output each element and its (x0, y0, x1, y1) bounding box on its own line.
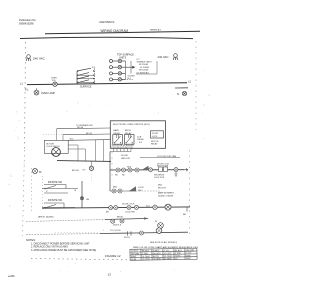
svg-text:SU-SW: SU-SW (128, 76, 135, 78)
svg-text:P PNK: P PNK (175, 253, 182, 255)
svg-text:DOOR LOCK: DOOR LOCK (122, 203, 135, 205)
svg-text:N: N (177, 92, 179, 96)
svg-text:SURF: SURF (131, 259, 137, 261)
svg-text:TO CLOCK: TO CLOCK (110, 230, 121, 232)
svg-text:1650: 1650 (186, 258, 191, 260)
svg-text:NOTES:: NOTES: (26, 238, 36, 242)
svg-text:BK BLK: BK BLK (142, 250, 150, 252)
svg-text:BK GN: BK GN (72, 170, 79, 172)
svg-text:Publication No: Publication No (19, 18, 36, 22)
svg-text:R RED: R RED (153, 250, 160, 252)
svg-text:ELECTRONIC OVEN CONTROL (EOC): ELECTRONIC OVEN CONTROL (EOC) (113, 124, 150, 126)
svg-text:MDL: MDL (113, 187, 118, 189)
svg-text:26 OHM: 26 OHM (142, 259, 150, 261)
svg-text:P1 P2 P3 P4 P5 P6 P7 P8: P1 P2 P3 P4 P5 P6 P7 P8 (112, 147, 133, 149)
svg-text:SEE NOTE 51 ALL MODELS: SEE NOTE 51 ALL MODELS (150, 241, 177, 244)
svg-text:2600W / 2100W: 2600W / 2100W (158, 195, 173, 197)
svg-text:BK-34: BK-34 (86, 133, 93, 135)
svg-text:35 OHM: 35 OHM (153, 258, 161, 260)
svg-text:N: N (75, 190, 77, 192)
svg-text:BK: BK (183, 214, 186, 216)
svg-text:240 VAC: 240 VAC (33, 57, 46, 61)
svg-text:57 OHM: 57 OHM (164, 258, 172, 260)
svg-text:PL: PL (39, 171, 43, 174)
svg-text:GY GRY: GY GRY (164, 253, 172, 255)
svg-text:LOCK: LOCK (152, 136, 158, 138)
svg-text:5995419298: 5995419298 (19, 21, 34, 25)
svg-text:BK: BK (106, 212, 109, 214)
svg-text:V VIO: V VIO (186, 253, 192, 255)
svg-text:PLUG: PLUG (124, 237, 130, 239)
svg-text:N-1: N-1 (128, 78, 132, 80)
svg-text:BL BLU: BL BLU (175, 250, 182, 252)
svg-text:GN: GN (86, 199, 90, 201)
svg-text:K-3: K-3 (139, 142, 143, 144)
svg-text:RD-40: RD-40 (77, 127, 84, 129)
svg-text:2. REPLACE ONLY WITH 16 AWG: 2. REPLACE ONLY WITH 16 AWG (31, 245, 68, 248)
svg-text:RELAY: RELAY (151, 142, 158, 145)
svg-text:LOCK SW: LOCK SW (125, 212, 135, 214)
svg-text:Y YEL: Y YEL (164, 250, 171, 252)
svg-text:SURFACE: SURFACE (80, 85, 92, 88)
svg-text:T TAN: T TAN (142, 252, 148, 255)
svg-text:BAKE ELEMENT: BAKE ELEMENT (158, 192, 175, 195)
svg-text:FIGURE 12: FIGURE 12 (105, 254, 121, 258)
svg-text:LOCK MOTOR CAM: LOCK MOTOR CAM (157, 155, 176, 158)
svg-text:DOOR: DOOR (121, 155, 128, 157)
svg-text:+: + (103, 229, 105, 231)
svg-text:P-1: P-1 (92, 67, 96, 69)
svg-text:TOD: TOD (52, 80, 57, 82)
svg-text:P.L.: P.L. (25, 89, 29, 92)
svg-text:ea15b: ea15b (8, 275, 15, 278)
svg-text:240 VAC: 240 VAC (158, 55, 169, 59)
svg-text:MOTOR: MOTOR (158, 187, 166, 189)
svg-text:LOCK POS: LOCK POS (154, 177, 165, 179)
svg-text:SURFACE UNITS: SURFACE UNITS (137, 61, 153, 64)
svg-text:BROIL: BROIL (117, 216, 124, 218)
svg-text:NC: NC (122, 175, 125, 177)
svg-text:OR ORN: OR ORN (131, 253, 140, 255)
svg-text:DOOR: DOOR (152, 133, 159, 135)
svg-text:(BROIL 3400W): (BROIL 3400W) (38, 217, 54, 219)
svg-text:3. APPLIANCE FRAME MUST BE GRO: 3. APPLIANCE FRAME MUST BE GROUNDED (SEE… (31, 249, 96, 252)
svg-text:OVEN LAMP: OVEN LAMP (41, 92, 55, 95)
svg-text:MDL: MDL (158, 185, 163, 187)
svg-text:W: W (155, 221, 157, 223)
svg-text:RELAY: RELAY (137, 138, 144, 141)
svg-text:W WHT: W WHT (131, 251, 139, 253)
svg-text:HLS: HLS (127, 166, 132, 168)
svg-text:NO: NO (115, 175, 118, 177)
svg-text:RR 1500W: RR 1500W (139, 69, 148, 71)
svg-text:FEF352CS: FEF352CS (100, 20, 115, 24)
svg-text:GN GRN: GN GRN (186, 250, 195, 252)
svg-text:L1: L1 (20, 82, 23, 86)
svg-text:SW: SW (138, 190, 141, 192)
svg-text:DLB R-6: DLB R-6 (113, 225, 122, 227)
svg-text:UNLOCK: UNLOCK (121, 158, 131, 160)
svg-text:13: 13 (108, 273, 112, 277)
svg-text:BAKE: BAKE (114, 129, 120, 132)
svg-text:LOCK: LOCK (138, 187, 144, 189)
svg-text:SERIES A-2: SERIES A-2 (150, 29, 162, 32)
svg-text:BR BRN: BR BRN (153, 253, 161, 255)
svg-text:INFINITE SW: INFINITE SW (48, 200, 63, 202)
svg-text:L2: L2 (188, 80, 191, 84)
svg-text:INFINITE SW: INFINITE SW (48, 182, 63, 184)
svg-text:29: 29 (175, 258, 178, 260)
svg-text:GY: GY (83, 169, 87, 171)
